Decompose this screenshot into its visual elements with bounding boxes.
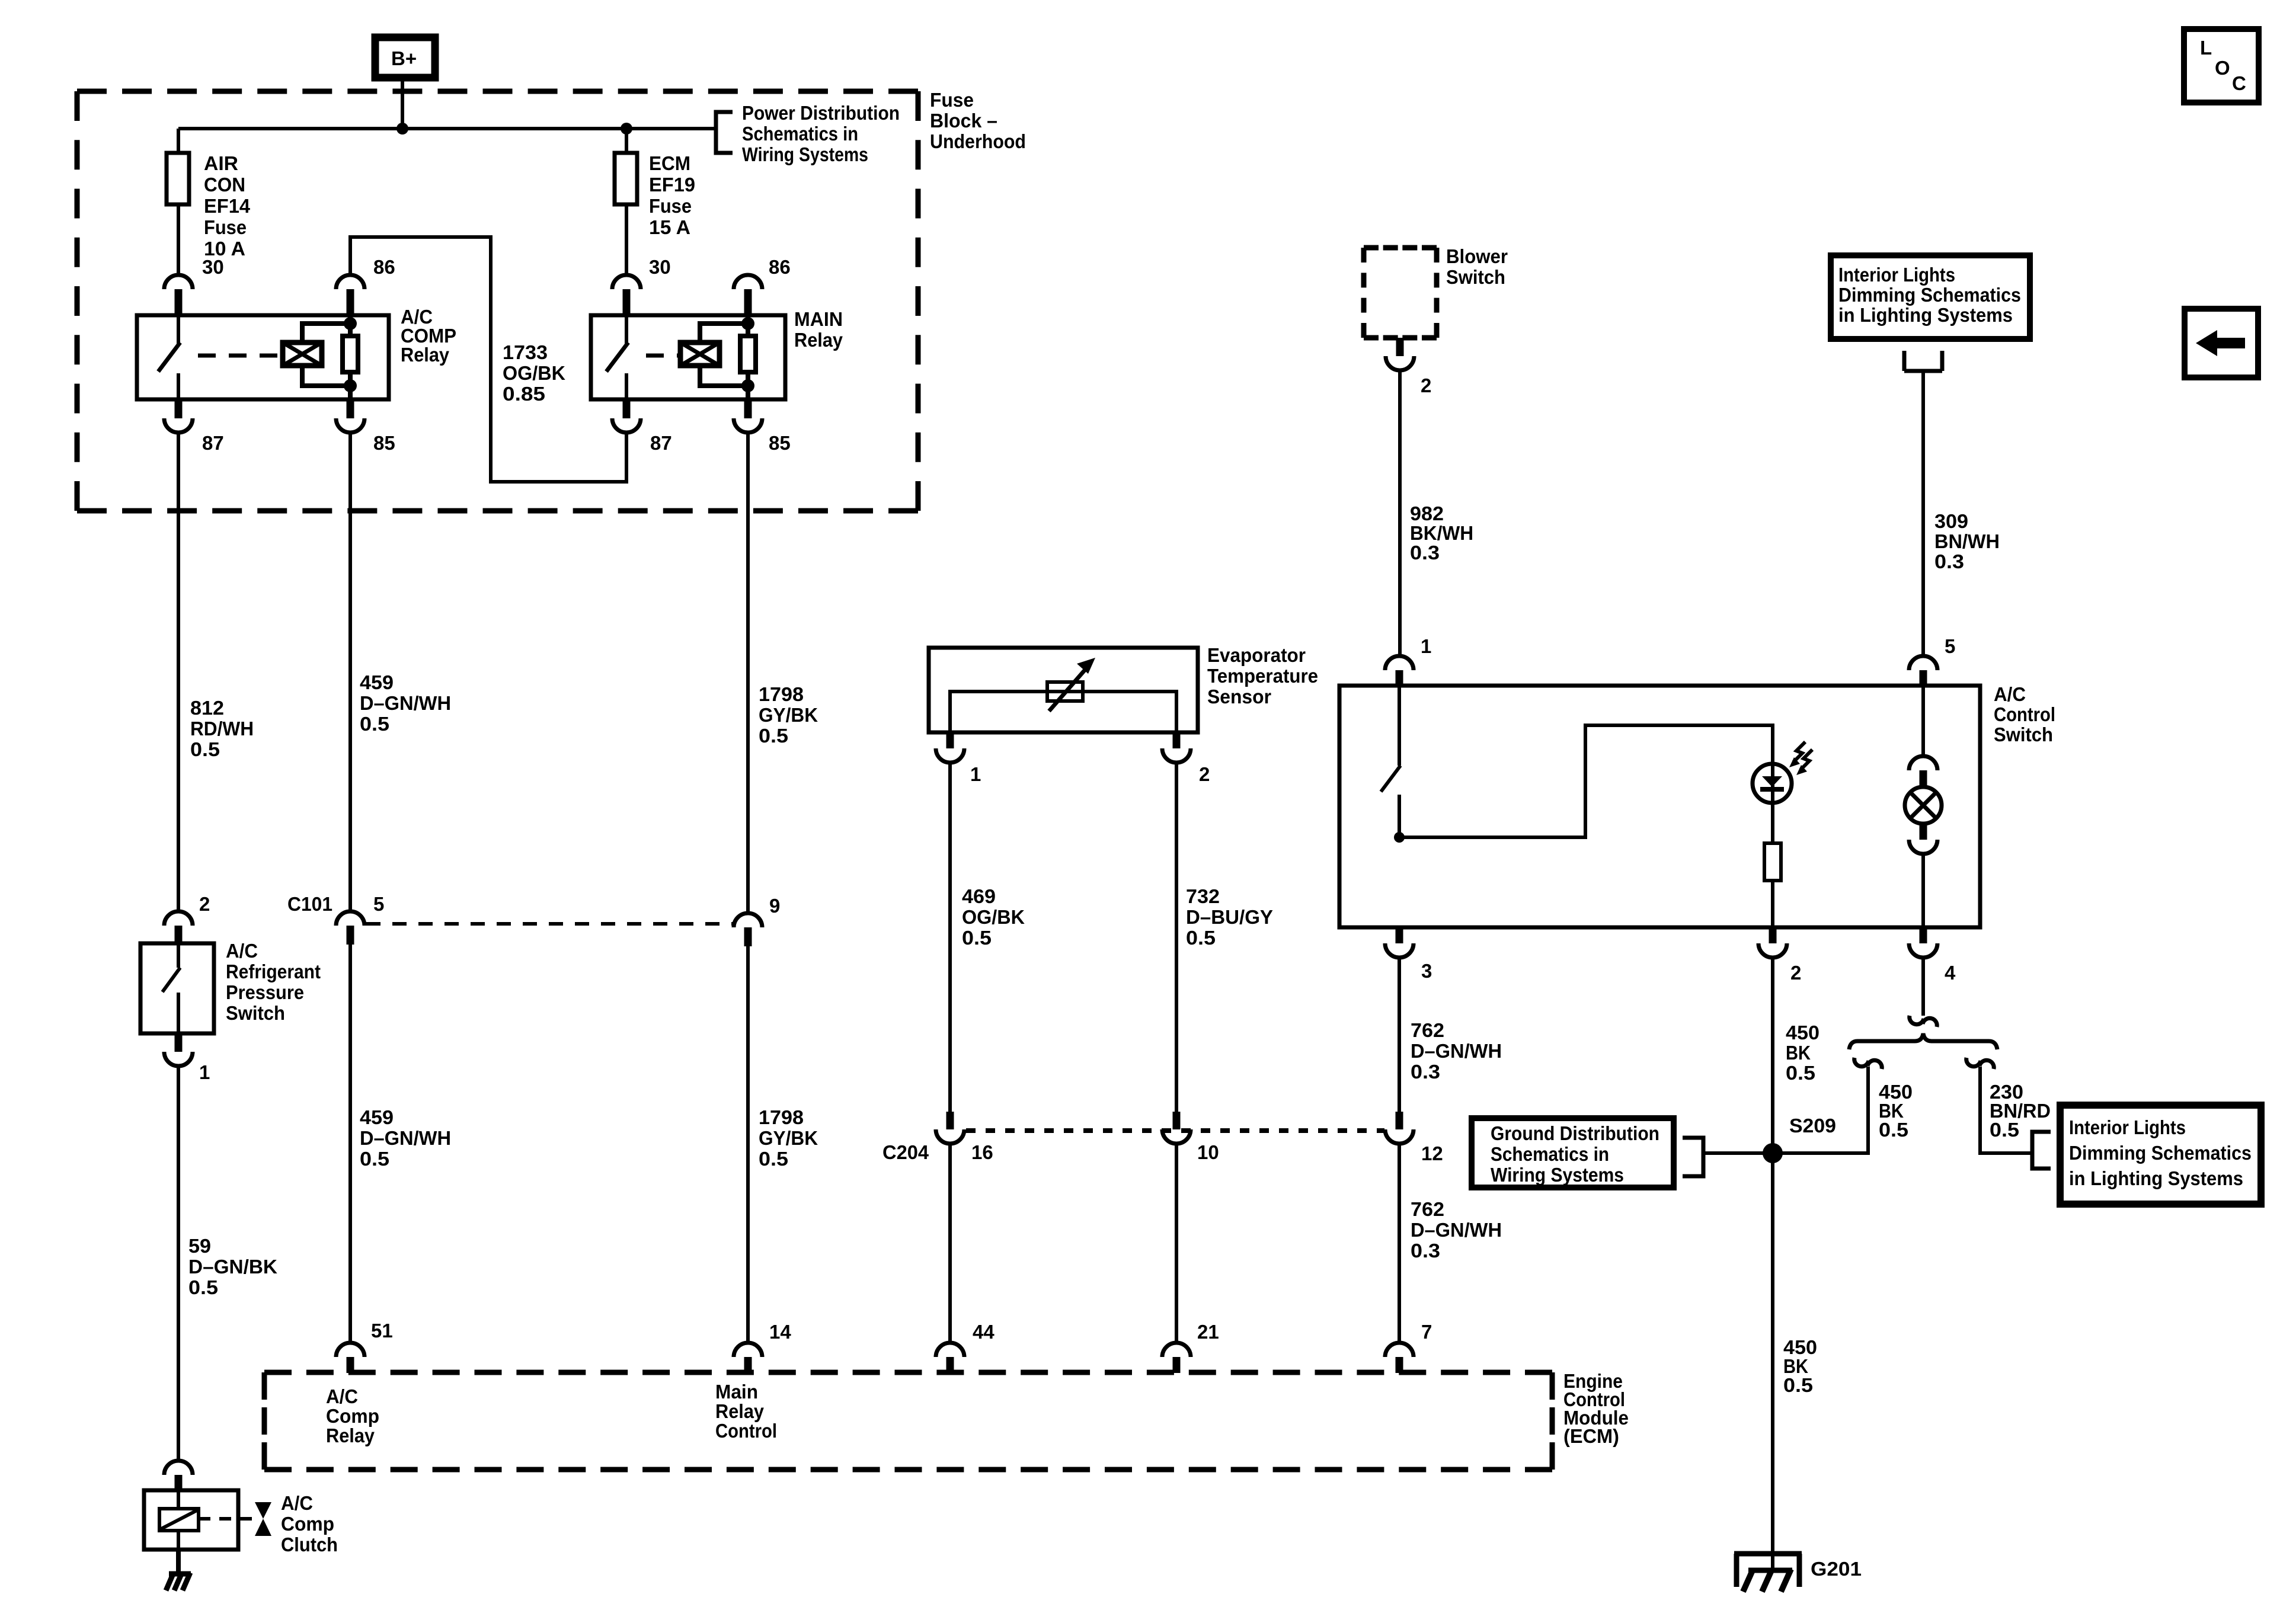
- svg-text:0.5: 0.5: [190, 738, 220, 760]
- svg-text:15 A: 15 A: [649, 216, 690, 238]
- svg-text:A/C: A/C: [1994, 683, 2026, 705]
- svg-text:0.5: 0.5: [759, 725, 788, 747]
- svg-text:85: 85: [769, 432, 791, 454]
- svg-text:59: 59: [188, 1235, 211, 1257]
- svg-text:OG/BK: OG/BK: [503, 362, 565, 384]
- svg-text:732: 732: [1186, 885, 1220, 907]
- svg-text:30: 30: [649, 256, 671, 278]
- svg-text:D–BU/GY: D–BU/GY: [1186, 906, 1273, 928]
- svg-text:Relay: Relay: [715, 1400, 765, 1422]
- svg-text:RD/WH: RD/WH: [190, 718, 254, 740]
- svg-text:0.5: 0.5: [1783, 1374, 1813, 1396]
- svg-text:2: 2: [1199, 763, 1210, 785]
- svg-text:Temperature: Temperature: [1207, 665, 1318, 687]
- svg-text:Switch: Switch: [226, 1002, 285, 1024]
- svg-text:Sensor: Sensor: [1207, 686, 1271, 708]
- svg-text:87: 87: [650, 432, 672, 454]
- svg-text:0.85: 0.85: [503, 383, 545, 405]
- svg-text:1733: 1733: [503, 341, 548, 363]
- svg-text:0.5: 0.5: [360, 713, 389, 735]
- svg-text:0.5: 0.5: [1786, 1062, 1815, 1084]
- svg-text:Comp: Comp: [326, 1405, 379, 1427]
- svg-text:D–GN/WH: D–GN/WH: [360, 1127, 451, 1149]
- svg-text:812: 812: [190, 697, 224, 719]
- svg-text:Power Distribution: Power Distribution: [742, 102, 900, 124]
- svg-text:1: 1: [1421, 635, 1431, 657]
- svg-text:Relay: Relay: [401, 344, 450, 366]
- svg-text:0.3: 0.3: [1934, 550, 1964, 572]
- svg-text:BK/WH: BK/WH: [1410, 522, 1473, 544]
- svg-text:86: 86: [373, 256, 395, 278]
- svg-text:CON: CON: [204, 174, 245, 196]
- svg-text:Switch: Switch: [1446, 266, 1505, 288]
- svg-text:30: 30: [202, 256, 224, 278]
- svg-text:G201: G201: [1811, 1558, 1862, 1580]
- svg-text:GY/BK: GY/BK: [759, 1127, 818, 1149]
- svg-text:B+: B+: [391, 47, 417, 69]
- svg-text:7: 7: [1421, 1321, 1432, 1343]
- svg-text:Dimming Schematics: Dimming Schematics: [2069, 1142, 2252, 1164]
- svg-text:Control: Control: [1994, 703, 2055, 725]
- svg-text:0.5: 0.5: [188, 1276, 218, 1298]
- svg-text:86: 86: [769, 256, 791, 278]
- svg-text:450: 450: [1786, 1022, 1819, 1044]
- svg-text:Refrigerant: Refrigerant: [226, 961, 321, 982]
- svg-text:A/C: A/C: [326, 1385, 358, 1407]
- svg-text:Ground Distribution: Ground Distribution: [1491, 1122, 1659, 1144]
- svg-text:4: 4: [1945, 962, 1956, 984]
- svg-text:Relay: Relay: [326, 1425, 375, 1446]
- svg-text:0.5: 0.5: [759, 1148, 788, 1170]
- svg-text:0.3: 0.3: [1411, 1061, 1440, 1083]
- svg-text:10: 10: [1197, 1141, 1219, 1163]
- svg-text:Dimming Schematics: Dimming Schematics: [1838, 284, 2021, 306]
- svg-text:5: 5: [1945, 635, 1955, 657]
- svg-text:762: 762: [1411, 1198, 1444, 1220]
- svg-text:GY/BK: GY/BK: [759, 704, 818, 726]
- svg-text:309: 309: [1934, 510, 1968, 532]
- svg-text:Wiring Systems: Wiring Systems: [1491, 1164, 1624, 1186]
- svg-text:D–GN/BK: D–GN/BK: [188, 1256, 277, 1278]
- svg-text:982: 982: [1410, 502, 1444, 524]
- svg-text:14: 14: [769, 1321, 791, 1343]
- svg-text:BN/WH: BN/WH: [1934, 530, 2000, 552]
- svg-text:459: 459: [360, 671, 394, 693]
- svg-text:S209: S209: [1789, 1115, 1836, 1137]
- svg-text:Fuse: Fuse: [204, 216, 247, 238]
- svg-text:EF14: EF14: [204, 195, 251, 217]
- svg-text:in Lighting Systems: in Lighting Systems: [1838, 304, 2013, 326]
- svg-text:0.5: 0.5: [1990, 1119, 2019, 1141]
- svg-text:Clutch: Clutch: [281, 1534, 338, 1555]
- svg-text:Blower: Blower: [1446, 245, 1508, 267]
- svg-text:C: C: [2232, 72, 2246, 94]
- svg-text:O: O: [2215, 57, 2230, 79]
- svg-text:C204: C204: [882, 1141, 929, 1163]
- svg-text:Evaporator: Evaporator: [1207, 644, 1306, 666]
- svg-text:44: 44: [973, 1321, 994, 1343]
- svg-text:D–GN/WH: D–GN/WH: [1411, 1219, 1502, 1241]
- svg-text:OG/BK: OG/BK: [962, 906, 1025, 928]
- svg-text:1: 1: [199, 1061, 210, 1083]
- svg-text:Control: Control: [715, 1420, 777, 1442]
- svg-text:BK: BK: [1786, 1042, 1811, 1064]
- svg-text:469: 469: [962, 885, 996, 907]
- svg-text:Interior Lights: Interior Lights: [2069, 1116, 2186, 1138]
- svg-text:1: 1: [970, 763, 981, 785]
- svg-text:Fuse: Fuse: [930, 89, 974, 111]
- svg-text:12: 12: [1421, 1142, 1443, 1164]
- svg-text:Switch: Switch: [1994, 724, 2053, 745]
- svg-text:459: 459: [360, 1106, 394, 1128]
- svg-text:51: 51: [371, 1320, 393, 1342]
- svg-text:1798: 1798: [759, 683, 804, 705]
- svg-text:0.5: 0.5: [1879, 1119, 1908, 1141]
- svg-text:Interior Lights: Interior Lights: [1838, 264, 1955, 286]
- svg-text:Pressure: Pressure: [226, 981, 304, 1003]
- svg-text:762: 762: [1411, 1019, 1444, 1041]
- svg-text:85: 85: [373, 432, 395, 454]
- svg-text:in Lighting Systems: in Lighting Systems: [2069, 1167, 2243, 1189]
- svg-text:Main: Main: [715, 1381, 758, 1403]
- svg-text:Schematics in: Schematics in: [1491, 1143, 1609, 1165]
- svg-text:2: 2: [1421, 375, 1431, 396]
- svg-text:0.3: 0.3: [1410, 542, 1440, 564]
- svg-text:A/C: A/C: [226, 940, 258, 962]
- svg-text:D–GN/WH: D–GN/WH: [360, 692, 451, 714]
- svg-text:87: 87: [202, 432, 224, 454]
- svg-text:Underhood: Underhood: [930, 130, 1026, 152]
- svg-text:5: 5: [373, 893, 384, 915]
- svg-text:A/C: A/C: [281, 1492, 313, 1514]
- svg-text:0.5: 0.5: [360, 1148, 389, 1170]
- svg-text:16: 16: [971, 1141, 993, 1163]
- svg-text:MAIN: MAIN: [794, 308, 843, 330]
- svg-text:2: 2: [199, 893, 210, 915]
- svg-text:C101: C101: [287, 893, 332, 915]
- svg-text:L: L: [2200, 37, 2212, 59]
- svg-text:0.5: 0.5: [962, 927, 992, 949]
- svg-text:Fuse: Fuse: [649, 195, 692, 217]
- svg-text:1798: 1798: [759, 1106, 804, 1128]
- svg-text:Block –: Block –: [930, 110, 997, 132]
- svg-text:(ECM): (ECM): [1563, 1425, 1619, 1447]
- svg-text:0.3: 0.3: [1411, 1240, 1440, 1262]
- svg-text:ECM: ECM: [649, 152, 690, 174]
- svg-text:AIR: AIR: [204, 152, 238, 174]
- svg-text:Comp: Comp: [281, 1513, 334, 1535]
- svg-text:D–GN/WH: D–GN/WH: [1411, 1040, 1502, 1062]
- svg-text:Wiring Systems: Wiring Systems: [742, 143, 868, 165]
- svg-text:0.5: 0.5: [1186, 927, 1216, 949]
- svg-text:Schematics in: Schematics in: [742, 123, 858, 145]
- svg-text:Relay: Relay: [794, 329, 843, 351]
- svg-text:9: 9: [769, 895, 780, 917]
- svg-text:21: 21: [1197, 1321, 1219, 1343]
- svg-text:3: 3: [1421, 960, 1432, 982]
- svg-text:EF19: EF19: [649, 174, 695, 196]
- svg-text:2: 2: [1790, 962, 1801, 984]
